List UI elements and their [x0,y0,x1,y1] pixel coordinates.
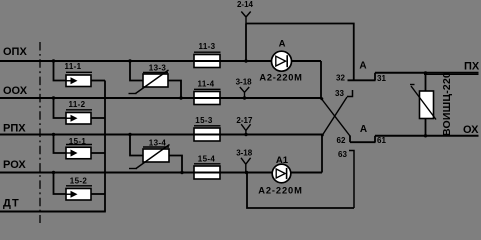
svg-text:11-3: 11-3 [199,42,216,51]
junction dot 13-3/OOX [179,96,182,99]
node OOX bus wire [0,97,322,99]
resistor R15-4 [194,155,221,180]
svg-text:РПХ: РПХ [3,122,26,134]
wire return rail to 3-18 [247,173,354,209]
wire 2-14 feed rail [246,24,354,81]
junction dot OPX/13-3 [128,59,131,62]
svg-text:13-4: 13-4 [149,139,167,148]
wire OOX to 11-2 input [54,98,67,118]
svg-text:33: 33 [335,89,344,98]
node ROX bus wire [0,172,322,174]
contact A upper blade jog [374,73,376,81]
node OX wire [375,135,479,137]
lamp A upper [259,38,302,82]
arrow 2-17 [241,124,250,135]
junction dot 2-17/RPX [244,133,247,136]
svg-text:15-1: 15-1 [69,137,87,146]
svg-text:15-2: 15-2 [70,177,88,186]
node DT bus wire [0,211,106,213]
junction dot OOX/11-2 [52,96,55,99]
varistor 13-3 [129,63,169,93]
svg-text:А: А [360,124,367,135]
resistor R15-3 [194,116,221,141]
receiver 15-1 [66,137,92,159]
wire 13-3 output to OOX [168,81,181,99]
resistor R11-3 [194,42,221,68]
svg-text:3-18: 3-18 [236,149,253,158]
resistor R11-4 [194,79,221,104]
svg-text:13-3: 13-3 [149,63,167,72]
arrow 3-18 upper [240,87,249,98]
svg-text:ОПХ: ОПХ [3,46,27,58]
wire 2-14 drop to OPX [245,24,247,62]
receiver 11-2 [66,100,92,124]
receiver 11-1 [65,62,92,86]
wire RPX end down to lamp A1 output [321,135,323,173]
junction dot OPX-OOX merge [320,97,323,100]
svg-text:11-1: 11-1 [65,62,82,71]
receiver 15-2 [66,177,92,201]
svg-text:63: 63 [338,150,347,159]
contact A lower tick from diagonal [349,136,351,143]
svg-text:11-4: 11-4 [198,79,215,88]
arrow 3-18 lower [241,158,251,173]
svg-text:А2-220М: А2-220М [259,72,302,82]
wire 11-2 output [91,117,105,119]
junction dot OPX/11-1 [52,59,55,62]
varistor 13-4 [129,139,170,169]
junction dot 2-14/OPX [244,59,247,62]
svg-text:15-3: 15-3 [195,116,213,125]
arrow 2-14 [241,12,250,24]
svg-text:15-4: 15-4 [198,155,216,164]
junction dot RPX/13-4 [128,133,131,136]
wire 13-4 output to ROX [169,156,182,173]
node OPX bus wire [0,60,321,62]
junction dot 13-4/ROX [180,171,183,174]
wire 15-1 output [91,152,105,154]
wire OPX lamp branch down [320,61,322,99]
junction dot RPX/15-1 [52,133,55,136]
svg-text:61: 61 [377,136,386,145]
svg-text:А1: А1 [276,155,289,166]
node RPX bus wire [0,134,323,136]
svg-text:ВОИШЦ-220: ВОИШЦ-220 [441,72,453,136]
junction dot 3-18/ROX [245,171,248,174]
svg-text:ДТ: ДТ [3,198,20,210]
junction dot 3-18/OOX [243,96,246,99]
contact A upper, terminal 32 wire [348,79,376,81]
junction dot ROX/15-2 [52,171,55,174]
svg-text:ООХ: ООХ [3,85,28,97]
wire crossing diagonal from contact 33 [323,97,348,135]
wire OPX to 11-1 input [54,61,67,81]
svg-text:11-2: 11-2 [69,100,86,109]
wire PX to equalizer [425,73,427,91]
svg-text:2-14: 2-14 [237,0,254,9]
wire 11-1 output [91,80,105,82]
svg-text:31: 31 [377,74,386,83]
svg-text:3-18: 3-18 [236,77,253,86]
svg-text:А2-220М: А2-220М [258,185,303,195]
equalizer VOISHCH-220 [410,72,453,136]
lamp A1 lower [258,155,303,195]
wire 15-2 output [91,193,105,195]
wire OPX to 13-3 input [130,61,143,81]
wire equalizer to OX [425,119,427,136]
svg-text:32: 32 [336,73,345,82]
contact A upper terminal 33 stub [347,90,353,97]
junction dot PX/equalizer [424,71,427,74]
svg-text:ПХ: ПХ [464,60,480,72]
wire RPX to 15-1 input [54,135,67,154]
junction dot RPX end node [321,134,324,137]
wire ROX to 15-2 input [54,173,67,195]
wire common return vertical to DT [104,81,106,212]
svg-text:ОХ: ОХ [463,124,479,136]
contact A lower, terminal 62 wire [350,141,376,143]
svg-text:РОХ: РОХ [3,159,26,171]
svg-text:62: 62 [337,136,346,145]
svg-text:А: А [279,38,286,49]
contact A lower terminal 63 stub [349,151,355,209]
screen boundary dash-dot line [39,42,41,223]
wire RPX to 13-4 input [130,135,143,156]
contact A lower blade jog [374,136,376,142]
node PX wire [375,72,479,74]
wire crossing diagonal to contact 62 [322,100,350,137]
svg-text:2-17: 2-17 [236,116,253,125]
junction dot OX/equalizer [424,134,427,137]
svg-text:А: А [359,61,366,72]
